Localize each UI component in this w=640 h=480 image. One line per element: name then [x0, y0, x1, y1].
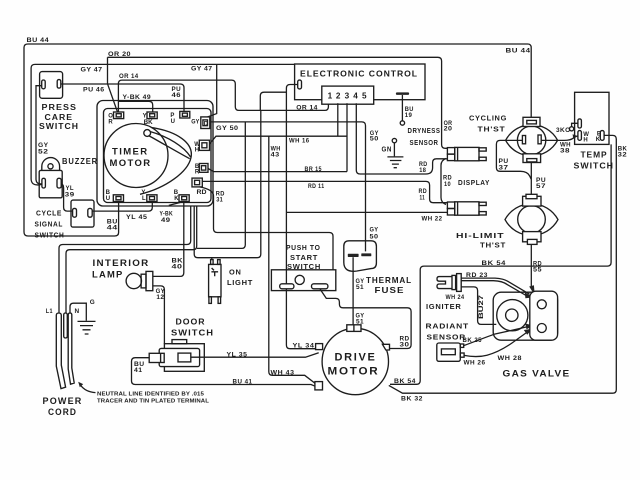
- svg-text:U: U: [106, 196, 110, 202]
- svg-text:3: 3: [345, 92, 350, 101]
- svg-text:SWITCH: SWITCH: [39, 121, 79, 131]
- svg-text:N: N: [75, 308, 80, 315]
- svg-text:TH'ST: TH'ST: [480, 241, 506, 250]
- wire YL34: push-start left tab down to motor: [286, 289, 319, 349]
- svg-text:39: 39: [65, 191, 75, 198]
- timer terminal BK (bottom row 3): [179, 195, 189, 202]
- svg-text:GAS VALVE: GAS VALVE: [503, 369, 571, 379]
- gas valve terminal bottom: [537, 324, 546, 333]
- radiant sensor pin bottom: [460, 353, 464, 357]
- timer terminal WH (right col 2): [199, 140, 209, 150]
- wire OR20: horizontal line to right vertical going to display: [108, 57, 448, 148]
- arrowhead WH38: [573, 134, 578, 138]
- cycle signal switch pin left: [73, 208, 77, 217]
- svg-text:NEUTRAL LINE IDENTIFIED BY .01: NEUTRAL LINE IDENTIFIED BY .015: [97, 392, 204, 398]
- svg-text:SWITCH: SWITCH: [35, 231, 65, 240]
- svg-text:GN: GN: [382, 145, 393, 154]
- buzzer body: [39, 170, 62, 197]
- svg-text:19: 19: [405, 112, 413, 119]
- gas valve body: [493, 292, 557, 340]
- buzzer dome: [42, 158, 60, 171]
- timer terminal BU (bottom row 1): [113, 195, 123, 202]
- svg-text:FUSE: FUSE: [375, 286, 405, 295]
- wire Y-BK49: tee to Y terminal: [118, 101, 152, 112]
- timer inner box: [104, 109, 212, 203]
- temp switch BK pin: [600, 131, 604, 141]
- drive motor top terminal: [347, 325, 361, 332]
- power cord bar PE: [68, 313, 74, 384]
- svg-text:DRYNESS: DRYNESS: [408, 126, 441, 135]
- svg-text:ELECTRONIC CONTROL: ELECTRONIC CONTROL: [300, 69, 418, 78]
- push to start switch button: [295, 275, 304, 284]
- wire OR14: from OR terminal up and right to staircase: [118, 80, 328, 112]
- svg-text:RADIANT: RADIANT: [426, 321, 470, 330]
- cycle signal switch pin right: [88, 208, 92, 217]
- arrowhead RD23: [525, 292, 534, 298]
- drive motor M1 circle: [322, 328, 388, 394]
- connector block 1 2 3 4 5: [322, 86, 374, 104]
- buzzer dome hole: [48, 164, 53, 169]
- svg-text:3KO: 3KO: [556, 127, 571, 134]
- svg-text:BK: BK: [144, 120, 154, 126]
- svg-text:32: 32: [618, 151, 628, 158]
- radiant sensor body: [437, 343, 461, 361]
- svg-text:BK 25: BK 25: [463, 337, 483, 344]
- temp switch box S5: [575, 92, 609, 144]
- svg-text:1: 1: [328, 92, 333, 101]
- svg-text:K: K: [596, 137, 601, 143]
- timer outer box: [97, 101, 213, 207]
- radiant sensor pin top: [460, 344, 463, 347]
- wire Y-BK49 lower: BK terminal diagonal to timer box edge: [169, 202, 184, 206]
- cycling thermostat contact left: [522, 136, 525, 144]
- buzzer pin left: [42, 178, 46, 188]
- svg-text:WH 16: WH 16: [289, 138, 310, 145]
- svg-text:18: 18: [419, 167, 426, 174]
- display bottom connector: [447, 202, 486, 215]
- wire WH38: cycling right contact to temp switch: [541, 136, 578, 140]
- svg-text:SIGNAL: SIGNAL: [35, 220, 64, 229]
- svg-text:Y: Y: [143, 114, 147, 120]
- svg-text:WH 43: WH 43: [271, 369, 295, 376]
- svg-text:SWITCH: SWITCH: [171, 328, 214, 337]
- svg-text:HI-LIMIT: HI-LIMIT: [456, 231, 505, 240]
- svg-text:INTERIOR: INTERIOR: [93, 258, 150, 268]
- svg-text:52: 52: [38, 148, 49, 155]
- hi-limit thermostat lens: [505, 204, 558, 236]
- on light PL2 body: [209, 264, 221, 296]
- door switch contact: [178, 353, 191, 362]
- wire YL35: door switch to motor: [191, 353, 319, 358]
- push to start right tab: [312, 284, 328, 289]
- wire BK25: sensor to gas valve bottom terminal: [464, 327, 529, 346]
- wire RD10 between display connectors: [441, 159, 446, 205]
- gas valve center hole: [506, 309, 518, 321]
- cycling thermostat circle: [517, 126, 545, 154]
- svg-text:POWER: POWER: [43, 396, 83, 406]
- svg-text:WH 22: WH 22: [422, 216, 443, 223]
- svg-text:START: START: [290, 253, 318, 262]
- svg-text:50: 50: [370, 234, 379, 241]
- svg-text:K: K: [174, 196, 179, 202]
- wire BK32: temp switch BK pin right, down right side, along bottom to motor: [389, 135, 617, 393]
- svg-text:L: L: [142, 196, 146, 202]
- svg-text:WH 26: WH 26: [464, 360, 486, 367]
- svg-text:31: 31: [216, 197, 223, 204]
- svg-text:TRACER AND TIN PLATED TERMINAL: TRACER AND TIN PLATED TERMINAL: [97, 399, 210, 405]
- cycle signal switch body: [71, 200, 94, 227]
- svg-text:WH 24: WH 24: [446, 294, 465, 301]
- on light bottom stubs: [209, 297, 212, 304]
- gas valve terminal top: [537, 300, 546, 309]
- wire GN: sensor to ground: [393, 143, 395, 157]
- svg-text:RD 23: RD 23: [466, 272, 488, 279]
- svg-text:R: R: [108, 120, 113, 126]
- svg-text:CORD: CORD: [48, 407, 77, 417]
- svg-text:SWITCH: SWITCH: [574, 161, 615, 170]
- svg-text:TH'ST: TH'ST: [478, 124, 506, 133]
- wire YL39: buzzer right pin down to cycle signal switch: [61, 184, 72, 212]
- svg-text:50: 50: [370, 136, 379, 143]
- svg-text:R: R: [195, 170, 200, 176]
- wire GY50 tap loop at timer bottom: [197, 122, 245, 248]
- electronic control box U1: [295, 64, 425, 100]
- timer terminal PU (top row 3): [180, 111, 190, 118]
- svg-text:55: 55: [533, 267, 542, 274]
- svg-text:OR 14: OR 14: [296, 104, 318, 111]
- svg-text:TIMER: TIMER: [112, 147, 149, 158]
- drive motor left terminal: [316, 344, 323, 350]
- svg-text:PRESS: PRESS: [42, 102, 78, 112]
- dryness sensor contact bottom: [392, 138, 396, 142]
- wire BU44 outer loop: timer BU terminal, left border, top border, down to cycling thermostat: [24, 44, 531, 236]
- svg-text:BR 15: BR 15: [305, 166, 323, 173]
- svg-text:10: 10: [444, 181, 451, 188]
- drive motor right terminal: [382, 344, 389, 350]
- svg-text:Y-BK 49: Y-BK 49: [123, 94, 152, 101]
- igniter fork: [437, 277, 452, 289]
- on light top stubs: [211, 260, 214, 265]
- svg-text:BK 32: BK 32: [401, 396, 423, 403]
- svg-text:IGNITER: IGNITER: [426, 302, 462, 311]
- svg-text:YL 34: YL 34: [293, 343, 315, 350]
- arrowhead WH28: [524, 329, 533, 335]
- ground G: [78, 321, 96, 334]
- svg-text:ON: ON: [229, 268, 242, 277]
- power cord bar N: [64, 313, 68, 338]
- svg-text:SWITCH: SWITCH: [287, 262, 321, 271]
- svg-text:YL 45: YL 45: [126, 214, 148, 221]
- push to start switch S3 box: [271, 270, 335, 291]
- svg-text:RD 11: RD 11: [308, 183, 325, 190]
- dryness sensor contact top: [400, 121, 404, 125]
- wire YL45: cycle signal switch right pin to timer YL terminal: [92, 202, 152, 211]
- svg-text:BU 44: BU 44: [27, 37, 50, 44]
- svg-text:GY: GY: [191, 120, 199, 126]
- svg-text:11: 11: [420, 194, 426, 201]
- svg-text:RD: RD: [197, 190, 208, 196]
- electronic control left pin: [298, 80, 302, 89]
- door switch top bump: [172, 340, 187, 344]
- timer terminal RD (right col 4): [192, 178, 202, 187]
- push to start left tab: [280, 284, 294, 289]
- svg-text:38: 38: [560, 147, 570, 154]
- svg-text:TEMP: TEMP: [581, 151, 608, 160]
- temp switch WH pin: [578, 131, 582, 141]
- cycling thermostat top stem: [523, 117, 540, 126]
- svg-text:2: 2: [336, 92, 341, 101]
- wire WH43: branch down to drive motor: [269, 136, 318, 385]
- wire BR15: timer BR terminal to pin3: [208, 169, 347, 172]
- svg-text:CYCLING: CYCLING: [469, 114, 507, 123]
- wire BU41: door switch left to bottom rail and to motor: [132, 358, 319, 388]
- svg-text:PUSH TO: PUSH TO: [286, 243, 321, 252]
- timer terminal YL (bottom row 2): [147, 195, 157, 202]
- svg-text:GY 50: GY 50: [216, 125, 239, 132]
- interior lamp bulb: [126, 273, 141, 288]
- radiant sensor window: [441, 349, 455, 355]
- timer terminal Y-BK (top row 2): [147, 112, 157, 119]
- power cord bar L1: [56, 313, 65, 389]
- timer cam follower leaf: [150, 132, 191, 158]
- hi-limit thermostat circle: [518, 206, 546, 234]
- terminal bar BU19: [396, 92, 409, 95]
- ground GN: [387, 157, 403, 168]
- wire OR20 drop: junction down and diagonal into OR terminal: [108, 57, 118, 112]
- svg-text:H: H: [583, 138, 587, 144]
- timer terminal GY-D (right col 1): [201, 117, 210, 129]
- wire WH26-WH28: sensor lower to gas valve: [464, 332, 528, 357]
- svg-text:L1: L1: [46, 308, 53, 315]
- wire GY52: press care left pin down to buzzer: [36, 86, 42, 184]
- door switch left plug: [149, 353, 164, 362]
- wire OR14 jog to control pin vertical: [260, 92, 286, 110]
- thermal fuse pin left: [348, 254, 359, 257]
- wire GY50: timer GY-D terminal to thermal fuse: [210, 122, 366, 252]
- igniter collar bars: [452, 275, 456, 289]
- gas valve flange circle: [497, 300, 528, 331]
- svg-text:41: 41: [134, 367, 143, 374]
- cycling thermostat bottom stem: [523, 154, 541, 163]
- wire PU37: cycling left contact loop toward hi-limit: [496, 140, 531, 179]
- temp switch top pin: [578, 119, 582, 128]
- hi-limit top stem: [523, 196, 541, 206]
- wire BU19 stub and terminal bar: [401, 95, 403, 121]
- interior lamp collar: [141, 274, 146, 288]
- svg-text:20: 20: [444, 126, 453, 133]
- svg-text:4: 4: [353, 92, 358, 101]
- svg-text:30: 30: [400, 342, 410, 349]
- svg-text:WH 28: WH 28: [498, 355, 523, 362]
- wire GY12: lamp to door switch: [153, 286, 165, 344]
- wire control pin to vertical x286 down to push-to-start: [286, 85, 297, 284]
- svg-text:40: 40: [172, 264, 183, 271]
- svg-text:CYCLE: CYCLE: [36, 209, 62, 218]
- drive motor bottom-left terminal: [315, 382, 323, 390]
- wire RD55: hi-limit bottom to gas valve: [530, 244, 532, 288]
- svg-text:THERMAL: THERMAL: [366, 276, 412, 285]
- wire pin3 drop: [346, 103, 348, 171]
- svg-text:LAMP: LAMP: [92, 270, 124, 280]
- svg-text:GY 47: GY 47: [81, 66, 103, 73]
- svg-text:DOOR: DOOR: [176, 318, 206, 327]
- timer terminal BR (right col 3): [199, 164, 208, 173]
- press care switch pin right: [57, 80, 61, 89]
- timer terminal OR (top row 1): [114, 112, 124, 119]
- svg-text:PU 46: PU 46: [83, 86, 105, 93]
- svg-text:37: 37: [499, 165, 509, 172]
- svg-text:B: B: [174, 190, 179, 196]
- wire G jumper and ground: [70, 303, 86, 321]
- wire GY51: thermal fuse left pin down to motor: [352, 257, 354, 325]
- svg-text:BUZZER: BUZZER: [62, 156, 98, 166]
- timer cam hook: [144, 130, 151, 137]
- svg-text:DISPLAY: DISPLAY: [458, 178, 490, 187]
- cycling thermostat contact right: [538, 135, 541, 144]
- svg-text:51: 51: [356, 284, 364, 291]
- press care switch S1 body: [40, 72, 63, 99]
- svg-text:GY: GY: [370, 227, 379, 234]
- door switch inner box: [159, 348, 199, 366]
- svg-text:44: 44: [107, 225, 118, 232]
- wire pin2 drop: [337, 103, 339, 136]
- note arrow: [80, 385, 95, 393]
- buzzer pin right: [57, 178, 61, 188]
- svg-text:SENSOR: SENSOR: [427, 333, 467, 342]
- svg-text:BU27: BU27: [479, 294, 485, 319]
- cycling thermostat lens: [506, 125, 558, 156]
- svg-text:43: 43: [271, 152, 280, 159]
- door switch outer box: [164, 344, 204, 372]
- resistor 3K circle: [570, 127, 574, 131]
- svg-text:BK 54: BK 54: [482, 260, 507, 267]
- wire WH22: to display bottom connector: [286, 211, 447, 213]
- svg-text:B: B: [106, 190, 111, 196]
- svg-text:MOTOR: MOTOR: [328, 366, 380, 378]
- svg-text:LIGHT: LIGHT: [227, 278, 253, 287]
- gas valve solenoid: [530, 291, 558, 340]
- svg-text:12: 12: [156, 294, 164, 301]
- interior lamp holder: [146, 271, 153, 290]
- wire GY47: inner border line from buzzer up left side and along top to electronic control: [31, 64, 295, 179]
- svg-text:DRIVE: DRIVE: [335, 352, 377, 364]
- svg-text:YL 35: YL 35: [227, 351, 248, 358]
- display top connector: [447, 147, 486, 160]
- wire WH16: timer WH terminal to the right: [210, 136, 348, 144]
- hi-limit bottom stem: [523, 232, 541, 242]
- wire push-start right tab to motor (RD30): [320, 289, 411, 349]
- svg-text:OR 20: OR 20: [108, 51, 131, 58]
- svg-text:U: U: [171, 119, 175, 125]
- svg-text:49: 49: [161, 217, 171, 224]
- on light electrodes: [211, 268, 218, 276]
- svg-text:Y: Y: [141, 190, 145, 196]
- wire WH24-BU27: igniter lower to gas valve body: [461, 287, 496, 325]
- wire ON light stub tap: [211, 258, 213, 260]
- wire GY47 drop into GY-D terminal: [208, 64, 217, 117]
- svg-text:57: 57: [536, 183, 546, 190]
- wire L1: power cord to timer area: [59, 206, 191, 313]
- svg-text:BU 41: BU 41: [233, 378, 253, 385]
- wire BK40: timer BK terminal down to interior lamp: [153, 202, 184, 277]
- wire RD18: pin4 down and right to display top connector: [356, 103, 447, 174]
- svg-text:5: 5: [362, 92, 367, 101]
- wire PU57: cycling bottom to hi-limit top: [530, 163, 532, 195]
- svg-text:GY 47: GY 47: [191, 66, 213, 73]
- thermal fuse pin right: [361, 253, 371, 256]
- svg-text:MOTOR: MOTOR: [110, 158, 152, 169]
- wire PU46: press care right pin to timer PU terminal: [61, 84, 184, 111]
- timer cam disc: [140, 128, 191, 195]
- wire RD23: igniter to gas valve (double line): [461, 278, 529, 294]
- svg-text:H: H: [195, 147, 199, 153]
- svg-text:BU 44: BU 44: [506, 48, 531, 55]
- resistor 3K wire: [572, 123, 578, 126]
- wire RD31: timer RD terminal down, right, to push-to-start: [200, 187, 334, 270]
- svg-text:G: G: [90, 299, 95, 306]
- wire RD11: timer RD terminal to display bottom connector: [202, 181, 447, 202]
- svg-text:D: D: [204, 121, 209, 127]
- press care switch pin left: [42, 80, 46, 89]
- arrowhead RD55: [529, 285, 535, 295]
- wire N: power cord to timer area: [66, 206, 197, 313]
- svg-text:SENSOR: SENSOR: [410, 138, 439, 147]
- wire ON-light rail: timer bottom to vertical x260 up to OR14 line: [194, 110, 261, 257]
- arrowhead BK25: [525, 324, 534, 330]
- wire BK54: motor to gas valve frame and temp switch: [390, 144, 611, 384]
- thermal fuse F1 body: [344, 241, 377, 271]
- svg-text:46: 46: [172, 92, 182, 99]
- svg-text:OR 14: OR 14: [119, 73, 139, 80]
- timer motor circle: [104, 124, 168, 188]
